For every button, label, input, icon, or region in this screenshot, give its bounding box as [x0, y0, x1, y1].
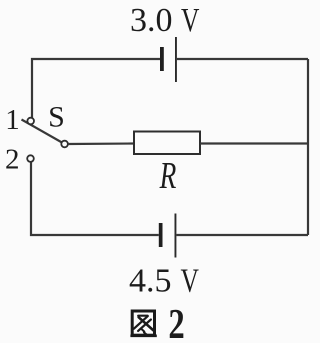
wire pivot to resistor: [68, 142, 134, 145]
svg-text:R: R: [159, 155, 177, 197]
svg-text:4.5: 4.5: [129, 263, 172, 300]
wire left rail lower: [31, 163, 159, 236]
label R: [159, 155, 177, 197]
svg-text:3.0: 3.0: [130, 2, 173, 39]
wire right rail: [307, 59, 309, 235]
switch terminal 1 node: [27, 118, 34, 125]
battery B1 thin plate (positive): [175, 37, 177, 82]
wire top-left segment: [32, 59, 160, 118]
wire bottom-right segment: [176, 234, 308, 236]
svg-text:2: 2: [5, 144, 20, 176]
svg-text:V: V: [181, 261, 200, 299]
switch terminal 2 node: [27, 155, 34, 162]
battery B2 thin plate (positive): [175, 214, 177, 258]
switch S lever: [22, 120, 65, 145]
caption label 2: [168, 301, 184, 343]
resistor R body: [134, 132, 200, 155]
battery B1 thick plate (negative): [160, 47, 164, 71]
wire top-right segment: [177, 58, 308, 60]
svg-text:V: V: [181, 0, 200, 38]
svg-text:1: 1: [5, 104, 20, 136]
svg-text:S: S: [48, 101, 65, 134]
caption glyph 图 inner strokes: [134, 316, 154, 335]
battery B2 thick plate (negative): [159, 223, 163, 247]
svg-text:2: 2: [168, 301, 184, 343]
switch pivot node: [61, 141, 68, 148]
wire resistor to right rail: [200, 142, 308, 144]
caption glyph 图 box: [130, 311, 156, 336]
